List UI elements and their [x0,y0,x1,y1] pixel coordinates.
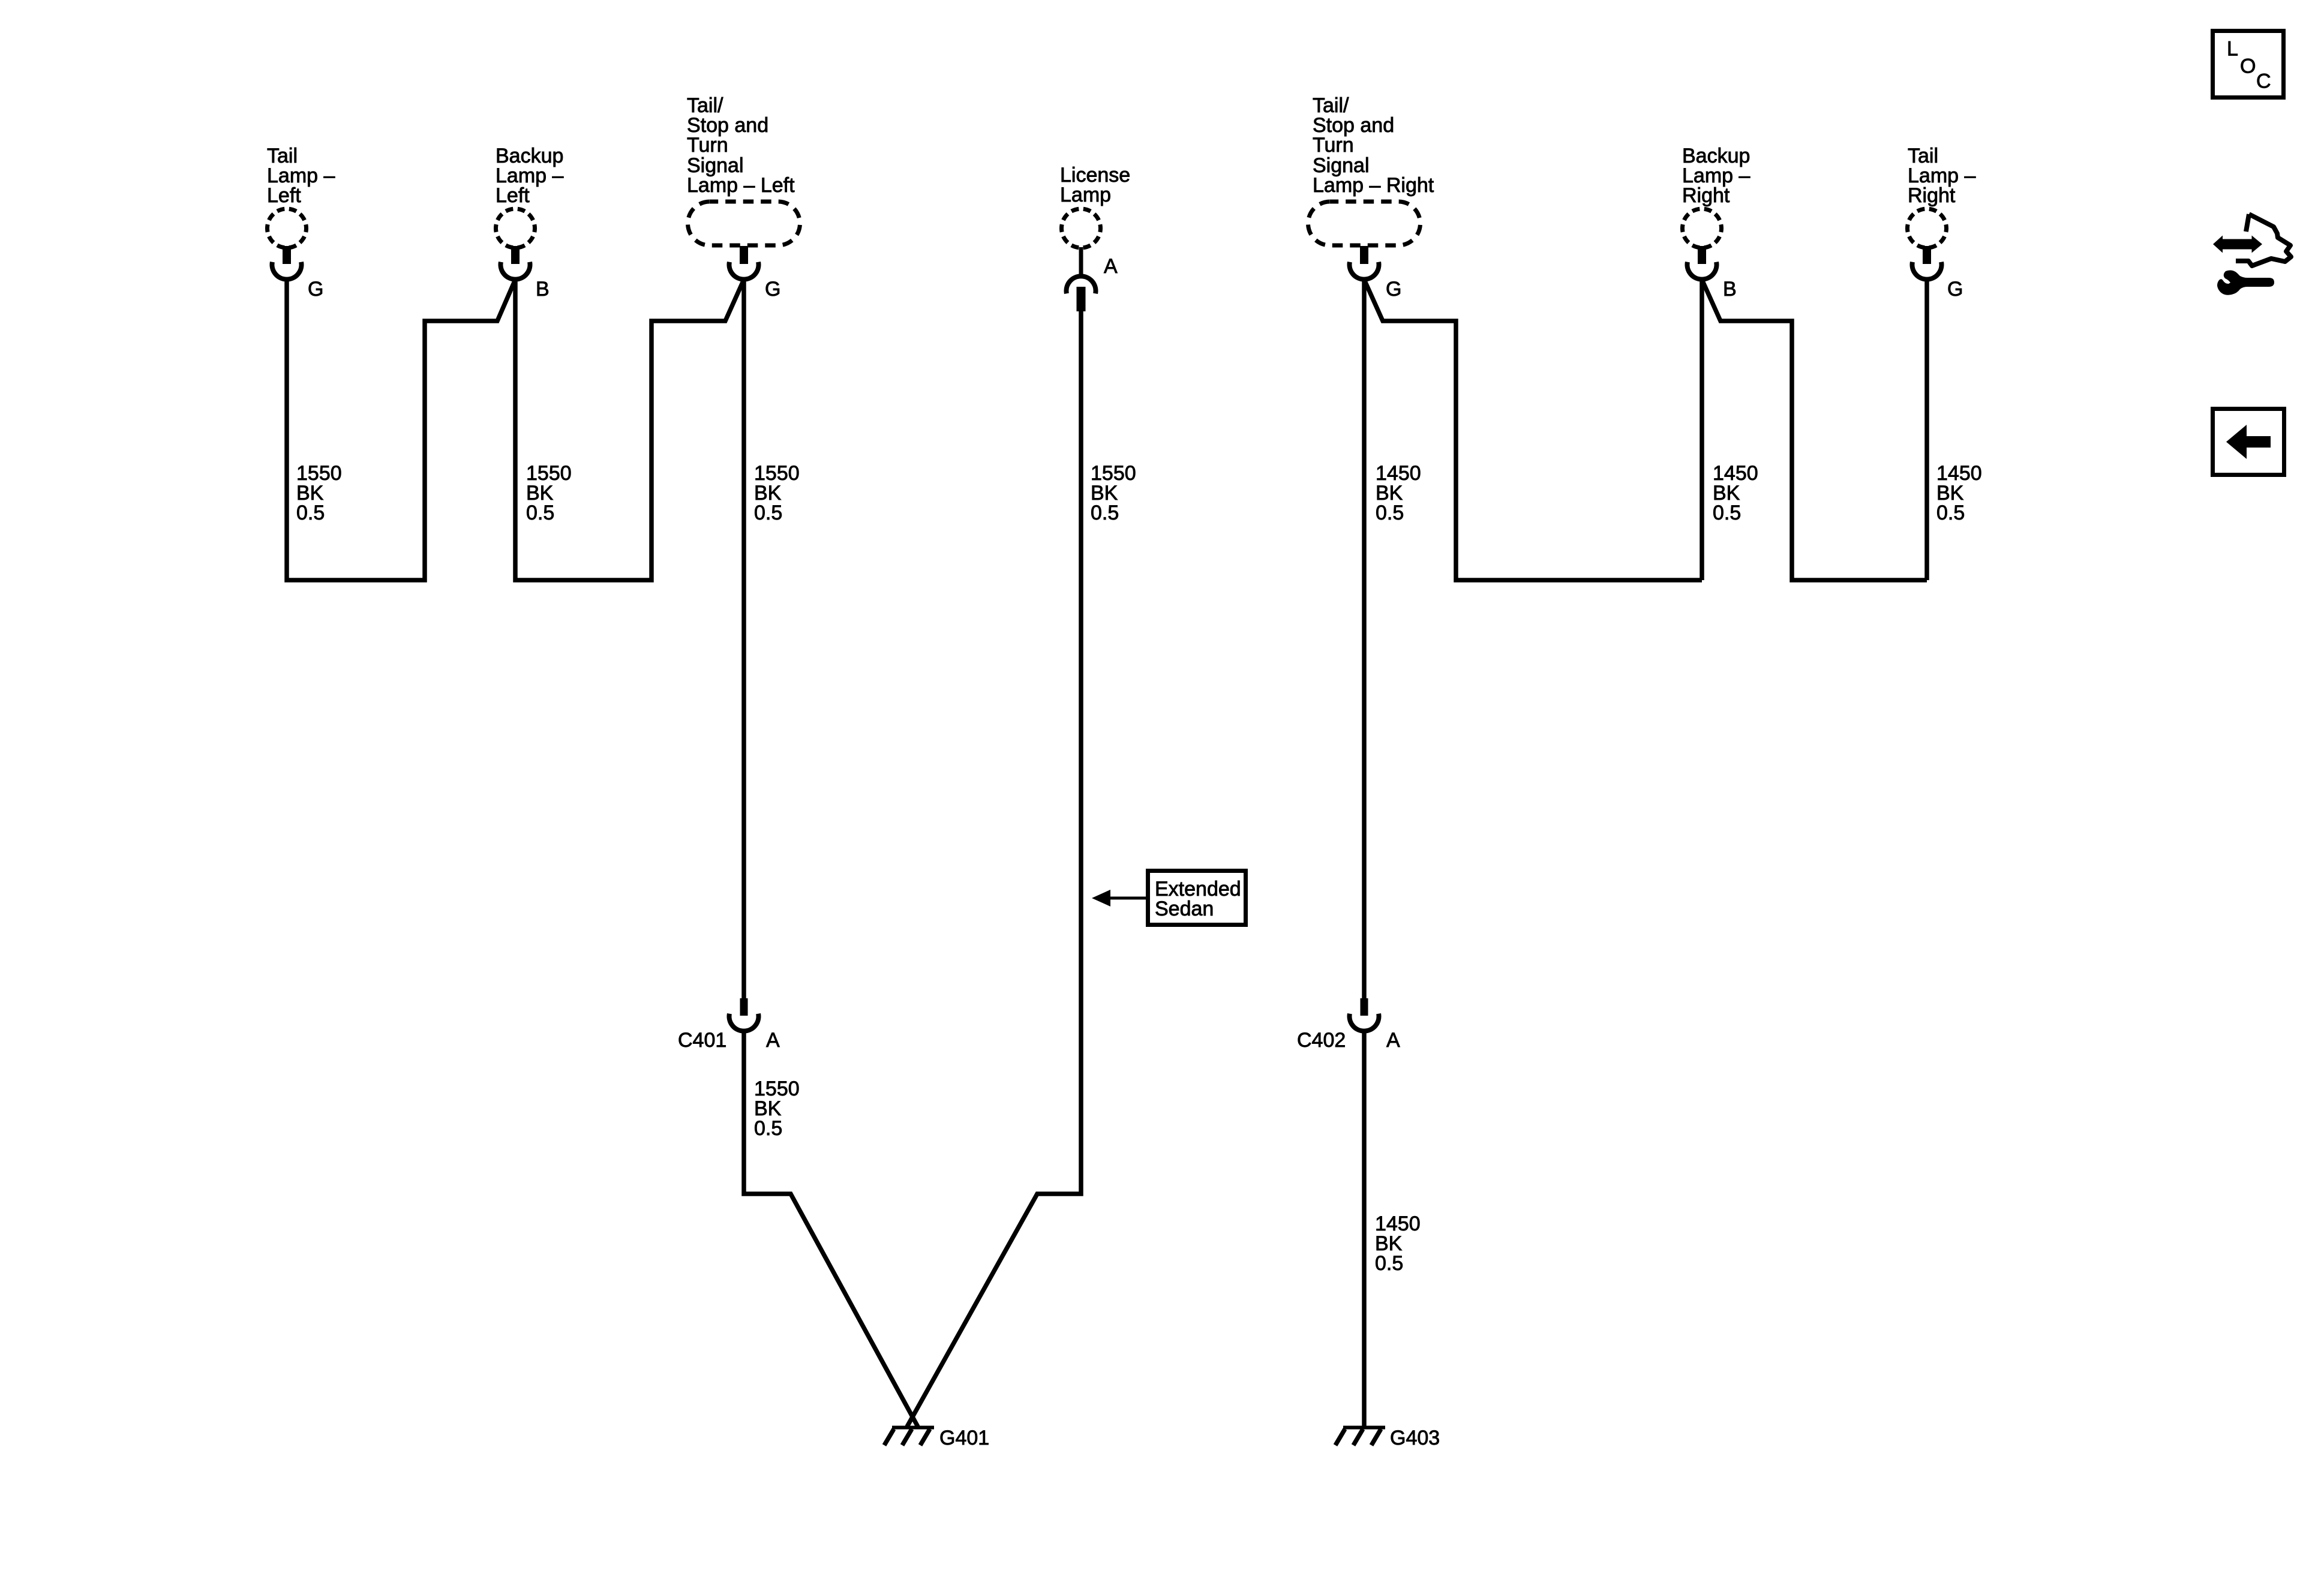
Tail Lamp - Left connector lamp dashed circle [268,209,307,248]
svg-text:O: O [2240,55,2256,78]
in-line connector C402 pin [1361,998,1368,1016]
wire: Backup Lamp Right B junction over and down to Tail Lamp Right bottom [1702,280,1927,580]
in-line connector C402 cup [1350,1014,1379,1031]
svg-text:G: G [308,278,323,301]
svg-text:G401: G401 [939,1427,989,1449]
Extended Sedan arrow [1109,897,1146,900]
Tail Lamp - Left connector terminal cup [272,262,302,280]
wire: Tail/Stop Left G down to C401 [741,279,746,998]
License Lamp dashed circle [1062,209,1101,248]
ground G401 symbol [884,1428,934,1446]
svg-text:G: G [765,278,780,301]
component repair icon: wrench [2217,271,2274,295]
svg-text:C: C [2256,70,2271,93]
in-line connector C401 cup [729,1014,759,1031]
Tail/Stop and Turn Signal Lamp - Right connector lamp dashed outline [1308,202,1421,245]
svg-text:G403: G403 [1390,1427,1440,1449]
Backup Lamp - Left connector terminal pin [511,246,520,264]
svg-text:C401: C401 [678,1029,726,1052]
Tail/Stop and Turn Signal Lamp - Right connector terminal pin [1360,246,1368,264]
Tail Lamp - Right connector lamp dashed circle [1908,209,1947,248]
Tail Lamp - Left connector terminal pin [283,246,291,264]
wire: C401 down to splice and G401 [744,1031,918,1427]
svg-text:G: G [1947,278,1963,301]
in-line connector C401 pin [740,998,748,1016]
Backup Lamp - Right connector terminal pin [1698,246,1706,264]
wire: Backup Lamp Left B down and over to Tail/Stop Left pin G [515,279,744,580]
ground G403 symbol [1335,1428,1385,1446]
Tail/Stop and Turn Signal Lamp - Left connector terminal cup [729,262,759,280]
svg-text:L: L [2227,38,2238,61]
Extended Sedan callout box [1148,871,1246,925]
Tail/Stop and Turn Signal Lamp - Left connector lamp dashed outline [688,202,800,245]
svg-text:C402: C402 [1297,1029,1346,1052]
Tail Lamp - Right connector terminal cup [1912,262,1941,280]
svg-text:A: A [1386,1029,1400,1052]
License Lamp lead wire [1079,247,1083,277]
wire: C402 down to G403 [1362,1031,1367,1427]
Backup Lamp - Left connector lamp dashed circle [496,209,535,248]
Tail/Stop and Turn Signal Lamp - Left connector terminal pin [740,246,748,264]
svg-text:B: B [536,278,550,301]
svg-text:B: B [1723,278,1737,301]
component repair icon: part outline [2236,214,2291,266]
Backup Lamp - Left connector terminal cup [501,262,530,280]
License Lamp terminal dome [1067,276,1096,293]
Backup Lamp - Right connector lamp dashed circle [1683,209,1722,248]
License Lamp terminal pin [1077,287,1086,311]
wire: Tail Lamp Right G down [1924,279,1929,580]
wire: Tail Lamp Left G to junction at Backup Lamp Left pin B [287,279,515,580]
LOC box icon [2213,31,2284,98]
wire: Backup Lamp Right B down [1700,279,1704,580]
component repair icon: double arrow [2213,236,2262,253]
wire: Tail/Stop Right G down to C402 [1362,279,1367,998]
wire: License Lamp A down to splice and G401 [907,311,1081,1427]
wire: Tail/Stop Right G junction over and down to Backup Lamp Right bottom [1364,280,1702,580]
Tail Lamp - Right connector terminal pin [1923,246,1931,264]
svg-text:A: A [766,1029,780,1052]
Backup Lamp - Right connector terminal cup [1688,262,1717,280]
svg-text:G: G [1386,278,1401,301]
Tail/Stop and Turn Signal Lamp - Right connector terminal cup [1350,262,1379,280]
back arrow box icon [2213,409,2284,475]
svg-text:A: A [1104,255,1118,278]
